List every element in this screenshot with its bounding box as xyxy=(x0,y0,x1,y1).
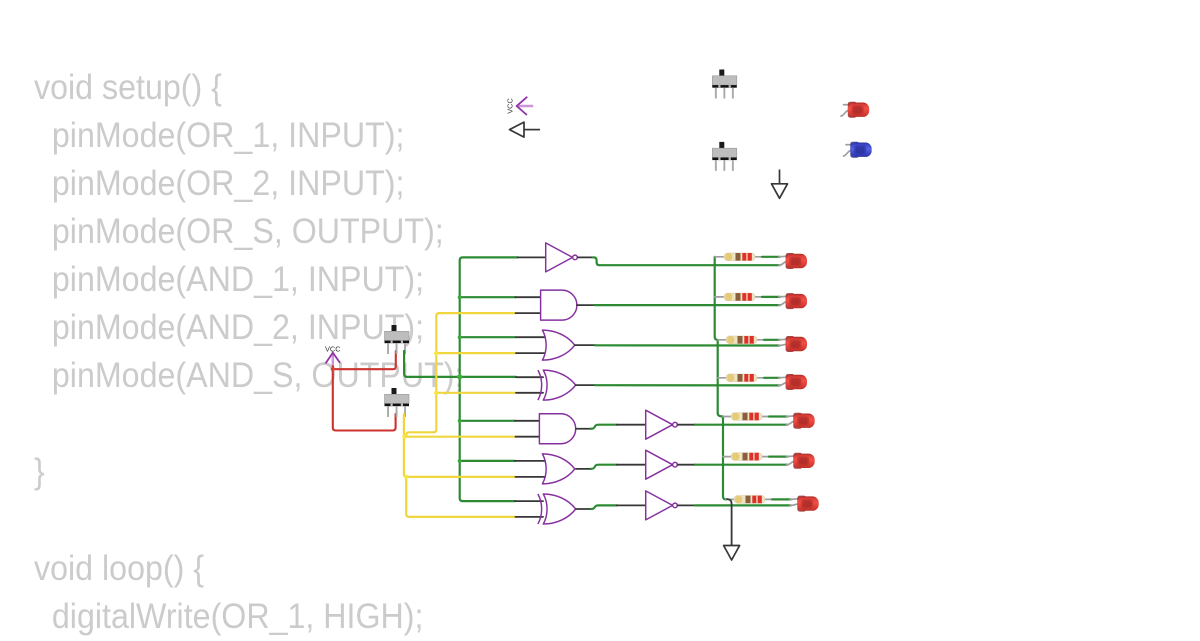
inverter gate U1 (NOT) xyxy=(546,243,578,272)
lead LED1 cathode xyxy=(779,261,788,265)
pin stub OR3 input A xyxy=(516,336,546,338)
wire green SW3 pin to bus trunk xyxy=(404,351,516,377)
wire red VCC to SW4 middle pin xyxy=(333,369,396,430)
pin stub XOR4 output xyxy=(576,384,596,386)
lead LED6 anode xyxy=(787,455,796,458)
wire green NOT row5 to LED5 xyxy=(695,424,788,426)
XOR gate U7 (XNOR stage) xyxy=(538,494,576,524)
lead LED7 anode xyxy=(790,498,799,501)
wire green branch row2 input xyxy=(460,296,516,298)
wire green NOT row6 to LED6 xyxy=(695,464,788,466)
lead LED3 cathode xyxy=(779,344,788,345)
wire yellow branch row4 input xyxy=(436,392,515,394)
junction yellow trunk xyxy=(402,435,406,439)
pin stub NOT row7 output xyxy=(678,504,696,506)
lead LED6 cathode xyxy=(787,461,796,465)
wire green AND2 output to LED2 xyxy=(595,304,780,306)
AND gate U5 (NAND stage) xyxy=(539,414,575,444)
resistor R6 220ohm xyxy=(731,453,762,461)
slide switch SW2 (floating, top) xyxy=(712,142,737,171)
LED red (floating, top-right) leads xyxy=(840,105,850,117)
LED5 red xyxy=(793,413,814,429)
LED6 red xyxy=(793,453,814,469)
pin stub OR6 input A xyxy=(515,460,546,462)
lead resistor R3 right xyxy=(755,339,765,341)
lead resistor R4 left xyxy=(718,377,728,379)
wire green R6 to LED6 anode xyxy=(769,456,788,458)
lead resistor R5 left xyxy=(723,416,733,418)
AND gate U2 xyxy=(541,290,577,320)
wire yellow branch row2 input xyxy=(436,313,515,316)
pin stub NOT1 input xyxy=(518,256,547,258)
wire red VCC to SW3 middle pin xyxy=(333,351,396,369)
junction green bus row2 xyxy=(458,295,462,299)
pin stub NOT7 input xyxy=(617,504,647,506)
wire green R5 to LED5 anode xyxy=(769,415,788,417)
pin stub AND5 input B xyxy=(516,436,541,438)
lead resistor R6 right xyxy=(760,456,770,458)
wire green branch row6 input xyxy=(460,460,515,462)
slide switch SW1 (floating, top) xyxy=(712,70,737,99)
inverter gate U8 (NOT row5) xyxy=(646,410,678,439)
lead LED5 anode xyxy=(787,415,796,418)
wire green gate7 to NOT7 xyxy=(591,505,617,509)
pin stub gate5 output xyxy=(576,428,592,430)
wire yellow riser shelf xyxy=(406,316,436,436)
wire green XOR4 output to LED4 xyxy=(595,384,780,386)
pin stub AND2 input B xyxy=(516,312,542,314)
wire green branch row5 input xyxy=(460,420,515,422)
wire yellow trunk row5 input xyxy=(404,436,516,438)
junction green bus row5 xyxy=(458,419,462,423)
ground symbol (down, bottom) xyxy=(724,544,740,560)
pin stub NOT5 input xyxy=(617,424,647,426)
lead LED2 anode xyxy=(779,295,788,298)
wire green NOT row7 to LED7 xyxy=(695,504,791,506)
lead LED5 cathode xyxy=(787,421,796,425)
wire green OR3 output to LED3 xyxy=(595,344,780,346)
OR gate U3 xyxy=(542,330,574,360)
lead resistor R2 left xyxy=(715,296,726,298)
lead LED4 cathode xyxy=(779,382,788,385)
pin stub OR6 input B xyxy=(516,476,547,478)
junction yellow row4 xyxy=(434,391,438,395)
lead LED4 anode xyxy=(779,376,788,379)
wire yellow drop to row7 xyxy=(406,477,515,517)
lead resistor R2 right xyxy=(753,296,763,298)
wire green NOT1 output to LED1 xyxy=(593,257,780,265)
wire green R4 to LED4 anode xyxy=(764,377,780,379)
wire green R2 to LED2 anode xyxy=(762,296,780,298)
pin stub AND5 input A xyxy=(515,420,540,422)
LED4 red xyxy=(786,374,807,390)
pin stub NOT row5 output xyxy=(678,424,696,426)
junction yellow row3 xyxy=(434,351,438,355)
resistor R5 220ohm xyxy=(731,413,762,421)
lead resistor R1 left xyxy=(715,256,726,258)
XOR gate U4 xyxy=(538,370,576,400)
wire yellow branch row3 input xyxy=(436,352,515,354)
pin stub NOT row6 output xyxy=(678,464,696,466)
inverter gate U9 (NOT row6) xyxy=(646,450,678,479)
junction yellow row7 tap xyxy=(404,475,408,479)
resistor R4 220ohm xyxy=(726,374,757,382)
wire green gate6 to NOT6 xyxy=(591,465,617,469)
wire black ground bus to GND xyxy=(727,499,732,546)
OR gate U6 (NOR stage) xyxy=(542,454,574,484)
pin stub XOR4 input B xyxy=(516,392,543,394)
wire green gate5 to NOT5 xyxy=(591,425,617,429)
pin stub NOT6 input xyxy=(617,464,647,466)
resistor R3 220ohm xyxy=(726,336,757,344)
lead resistor R6 left xyxy=(723,456,733,458)
LED blue (floating, top-right) xyxy=(850,142,871,158)
resistor R7 220ohm xyxy=(734,496,765,504)
pin stub OR3 input B xyxy=(516,352,546,354)
wire green R3 to LED3 anode xyxy=(764,339,780,341)
junction red VCC tee xyxy=(331,367,335,371)
lead resistor R1 right xyxy=(753,256,763,258)
lead resistor R3 left xyxy=(718,339,728,341)
lead resistor R5 right xyxy=(760,416,770,418)
resistor R2 220ohm xyxy=(724,293,755,301)
LED1 red xyxy=(786,253,807,269)
wire green R7 to LED7 anode xyxy=(772,498,791,500)
lead LED1 anode xyxy=(779,255,788,258)
lead LED2 cathode xyxy=(779,301,788,305)
lead LED7 cathode xyxy=(790,504,799,506)
ground symbol (left-pointing, floating) xyxy=(510,122,541,137)
LED2 red xyxy=(786,293,807,309)
slide switch SW3 (input A) xyxy=(385,325,410,354)
power symbol VCC (up) feeding switches xyxy=(325,345,341,369)
LED red (floating, top-right) xyxy=(848,102,869,118)
wire green bus lower vertical xyxy=(460,377,515,501)
pin stub XOR7 input A xyxy=(515,500,543,502)
LED3 red xyxy=(786,336,807,352)
lead resistor R7 right xyxy=(763,498,773,500)
LED blue (floating, top-right) leads xyxy=(843,145,853,157)
junction green bus row3 xyxy=(458,335,462,339)
power symbol VCC (left-pointing, floating) xyxy=(506,97,534,115)
resistor R1 220ohm xyxy=(724,253,755,261)
junction green bus row6 xyxy=(458,459,462,463)
wire yellow SW4 pin drop to row6 xyxy=(404,414,516,477)
pin stub AND2 output xyxy=(577,304,595,306)
svg-text:VCC: VCC xyxy=(506,98,515,114)
pin stub XOR7 input B xyxy=(516,516,544,518)
wire green branch row3 input xyxy=(460,336,516,338)
pin stub AND2 input A xyxy=(515,296,541,298)
junction green bus/trunk xyxy=(457,374,462,379)
lead resistor R7 left xyxy=(726,498,736,500)
wire green ground bus vertical xyxy=(715,257,726,500)
wire green R1 to LED1 anode xyxy=(762,256,780,258)
lead resistor R4 right xyxy=(755,377,765,379)
inverter gate U10 (NOT row7) xyxy=(646,491,678,520)
pin stub NOT1 output xyxy=(578,256,594,258)
pin stub XOR4 input A xyxy=(516,376,543,378)
pin stub gate7 output xyxy=(576,508,592,510)
ground symbol (down, top-right, floating) xyxy=(772,170,788,199)
pin stub OR3 output xyxy=(575,344,596,346)
LED7 red xyxy=(797,496,818,512)
lead LED3 anode xyxy=(779,338,788,341)
pin stub gate6 output xyxy=(576,468,592,470)
slide switch SW4 (input B) xyxy=(385,388,410,417)
wire green input bus vertical xyxy=(460,257,518,377)
